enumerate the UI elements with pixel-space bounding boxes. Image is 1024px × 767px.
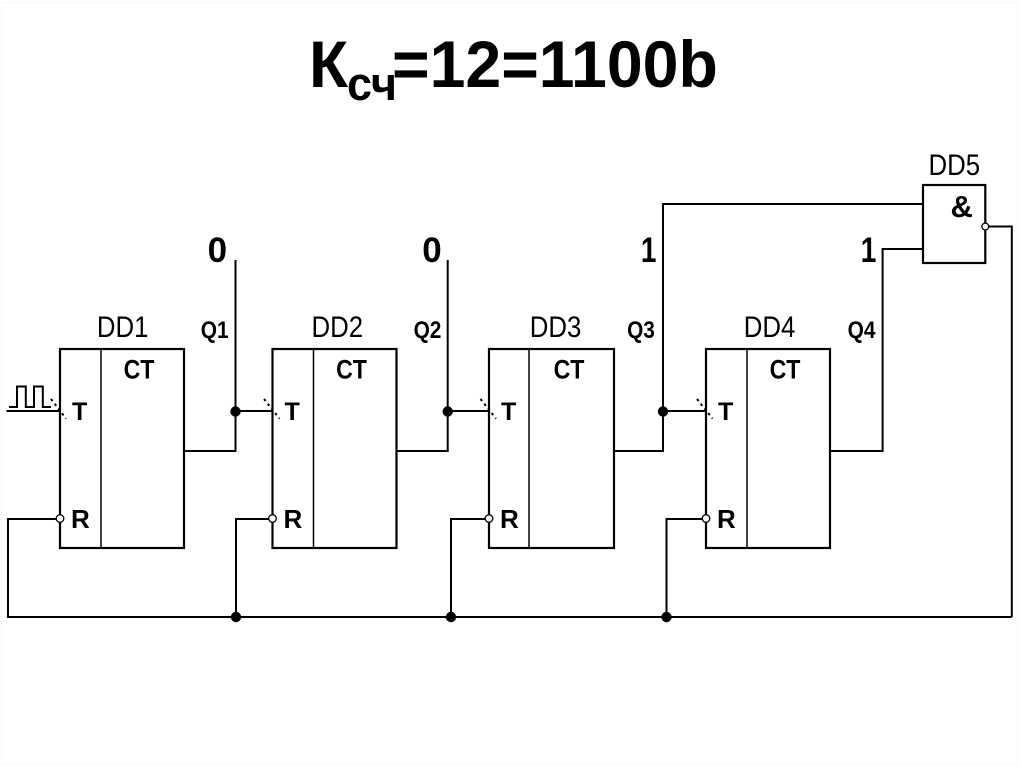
DD1 edge-trigger slash xyxy=(51,399,66,419)
svg-text:T: T xyxy=(718,398,733,426)
DD2 edge-trigger slash xyxy=(264,399,280,419)
svg-text:R: R xyxy=(717,504,736,534)
DD4 R inversion circle xyxy=(702,515,710,523)
svg-text:CT: CT xyxy=(336,355,367,385)
svg-text:DD4: DD4 xyxy=(744,310,796,343)
svg-text:T: T xyxy=(72,398,87,426)
reset bus wire xyxy=(7,616,1012,618)
svg-text:К: К xyxy=(309,27,348,101)
node Q2 junction dot xyxy=(443,406,453,416)
svg-text:Q4: Q4 xyxy=(848,317,876,344)
wire reset bus to DD1 R input xyxy=(8,519,56,617)
counter DD1 box xyxy=(60,349,184,548)
svg-text:R: R xyxy=(284,504,303,534)
svg-text:0: 0 xyxy=(208,231,227,270)
svg-text:сч: сч xyxy=(347,57,397,110)
net Q4 wire: DD4 output up to DD5 second input xyxy=(830,249,923,451)
DD3 edge-trigger slash xyxy=(481,399,497,419)
and-gate DD5 box xyxy=(923,185,985,263)
DD4 edge-trigger slash xyxy=(697,399,713,419)
wire node Q1 to DD2 T input xyxy=(236,410,273,412)
svg-text:=12=1100b: =12=1100b xyxy=(392,27,718,101)
DD2 R inversion circle xyxy=(269,515,277,523)
net Q2 wire: DD2 output up to node and value label xyxy=(397,260,448,451)
svg-text:DD2: DD2 xyxy=(312,310,364,343)
svg-text:Q1: Q1 xyxy=(201,317,229,344)
svg-text:DD5: DD5 xyxy=(929,148,981,181)
wire DD5 output feedback to reset bus xyxy=(989,227,1012,618)
svg-text:CT: CT xyxy=(554,355,585,385)
counter DD4 box xyxy=(706,349,830,548)
svg-text:&: & xyxy=(951,189,973,224)
svg-text:1: 1 xyxy=(641,230,657,270)
wire reset bus to DD4 R input xyxy=(667,519,703,617)
wire node Q3 to DD4 T input xyxy=(663,410,706,412)
node dot reset bus at DD4 drop xyxy=(661,612,671,622)
svg-text:CT: CT xyxy=(770,355,801,385)
svg-text:T: T xyxy=(285,398,300,426)
svg-text:R: R xyxy=(500,504,519,534)
counter DD2 box xyxy=(273,349,397,548)
node Q3 junction dot xyxy=(658,406,668,416)
svg-text:DD1: DD1 xyxy=(97,310,149,343)
clock input wire xyxy=(7,410,61,412)
svg-text:Q3: Q3 xyxy=(627,317,655,344)
DD5 output inversion circle xyxy=(982,223,989,230)
wire node Q2 to DD3 T input xyxy=(448,410,489,412)
svg-text:DD3: DD3 xyxy=(530,310,582,343)
node Q1 junction dot xyxy=(230,406,240,416)
svg-text:0: 0 xyxy=(422,231,441,270)
svg-text:T: T xyxy=(501,398,516,426)
DD3 R inversion circle xyxy=(485,515,493,523)
net Q1 wire: DD1 output up to node and value label xyxy=(184,260,236,451)
clock pulse symbol xyxy=(9,387,51,408)
counter DD3 box xyxy=(489,349,614,548)
node dot reset bus at DD2 drop xyxy=(231,612,241,622)
wire reset bus to DD3 R input xyxy=(451,519,485,617)
DD1 R inversion circle xyxy=(56,515,64,523)
svg-text:1: 1 xyxy=(861,230,877,270)
net Q3 wire: DD3 output up to DD5 first input xyxy=(614,204,923,451)
svg-text:Q2: Q2 xyxy=(414,317,442,344)
svg-text:R: R xyxy=(71,504,90,534)
svg-text:CT: CT xyxy=(124,355,155,385)
node dot reset bus at DD3 drop xyxy=(446,612,456,622)
wire reset bus to DD2 R input xyxy=(236,519,269,617)
title Ксч=12=1100b xyxy=(309,27,718,110)
